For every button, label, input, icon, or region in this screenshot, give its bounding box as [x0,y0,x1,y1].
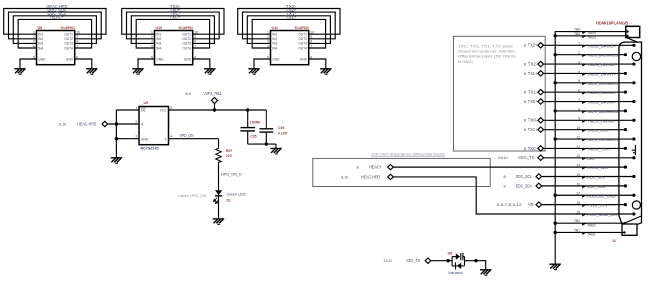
wire loop net TXC- (U10) [131,16,214,44]
svg-text:DDC_SCL: DDC_SCL [587,176,605,180]
svg-text:1: 1 [151,31,153,35]
connector J2 mounting hole top [632,52,640,60]
svg-text:VCC: VCC [160,109,167,113]
connector J2 pin 13 CEC [632,156,635,159]
note text TXC TX0 TX1 TX2 routing [458,44,516,64]
svg-text:R97: R97 [226,149,232,153]
svg-text:15: 15 [576,173,580,177]
connector J2 pin 8 TMDS_DA0SHIELD [555,110,625,112]
connector J2 pin 19 P5V0_HDMI_DET [632,212,635,215]
pin 5 GND left (U11) wire [254,59,271,69]
wire TX2+ to connector [543,44,634,46]
svg-text:14: 14 [576,164,580,168]
wire TXC+ to connector [543,129,625,131]
node junction rail at U9 inputs [115,110,117,158]
svg-text:5: 5 [578,79,580,83]
wire loop net TX2+ (U11) [243,12,336,39]
connector J2 mounting hole bottom [632,201,640,209]
wire loop net HEAC-HPD (U8) [4,9,106,35]
svg-text:HEAC+: HEAC+ [369,165,382,170]
connector J2 pin 9 TMDS_DATA0- [632,119,635,122]
connector J2 pin TB1 wire [555,231,624,233]
wire loop net TX0+ (U10) [127,12,220,39]
svg-text:3: 3 [151,40,153,44]
svg-text:CEC_TX: CEC_TX [518,155,534,160]
svg-text:OUT2: OUT2 [182,37,191,41]
svg-text:2: 2 [33,35,35,39]
svg-text:12: 12 [576,145,580,149]
svg-text:TMDS_DATA1+: TMDS_DATA1+ [587,72,616,76]
wire TX1+ to connector [543,72,625,74]
wire loop net TX2- (U11) [238,9,340,35]
svg-text:TX1+: TX1+ [528,71,538,76]
IC U11 RCLAMP0524 body [271,31,309,65]
svg-text:Label: HPD_ON: Label: HPD_ON [178,194,206,198]
connector J2 pin 7 TMDS_DATA0+ [632,100,635,103]
note box TX routing [454,36,546,151]
svg-text:4,6,10: 4,6,10 [384,258,393,263]
connector J2 pin 12 TMDS_CLK- [624,147,627,150]
pin 6 GND right (U10) wire [193,59,210,69]
svg-text:OUT4: OUT4 [182,46,191,50]
svg-text:8,10: 8,10 [341,174,349,179]
svg-text:8,10: 8,10 [59,121,67,126]
connector J2 pin 16 DDC_SDA [624,184,627,187]
wire loop net TX1- (U11) [247,16,330,44]
svg-text:2: 2 [151,35,153,39]
svg-text:TX2+: TX2+ [528,43,538,48]
connector J2 pin 11 TMDS_CLKSHIELD [555,138,634,140]
svg-text:3,5,7,8,9,12: 3,5,7,8,9,12 [497,202,522,207]
ground (right of U8) [86,69,97,74]
wire loop net TX1+ (U11) [252,19,325,48]
svg-text:U11: U11 [272,26,278,30]
svg-text:TMDS_DATA0-: TMDS_DATA0- [587,119,616,123]
ground (right of U10) [204,69,215,74]
pin 6 GND right (U11) wire [309,59,326,69]
svg-text:TMDS_DATA0+: TMDS_DATA0+ [587,101,616,105]
svg-text:10: 10 [310,31,314,35]
svg-text:8: 8 [524,118,526,123]
ground (capacitors) [270,149,281,154]
wire loop net DDC_SCL (U8) [13,16,96,44]
svg-text:17: 17 [576,192,580,196]
ground (left of U10) [132,69,143,74]
pin 5 GND left (U8) wire [20,59,37,69]
svg-text:16: 16 [576,182,580,186]
svg-text:8: 8 [524,146,526,151]
svg-text:TMDS_DA2SHIELD: TMDS_DA2SHIELD [587,54,618,58]
svg-text:TX0-: TX0- [528,118,538,123]
svg-text:RCLAMP0524: RCLAMP0524 [179,26,193,30]
svg-text:8: 8 [76,40,78,44]
svg-text:9: 9 [310,35,312,39]
wire loop net TXC+ (U10) [136,19,209,48]
svg-text:9: 9 [194,35,196,39]
svg-text:HEAC-HPD: HEAC-HPD [361,174,380,179]
svg-text:1: 1 [267,31,269,35]
wire shield ground rail [555,32,626,264]
svg-text:CEC_TX: CEC_TX [406,258,420,263]
svg-text:4,6,10: 4,6,10 [498,155,509,160]
svg-text:13: 13 [576,154,580,158]
svg-text:IN1: IN1 [38,33,43,37]
svg-text:TB3: TB3 [574,32,580,36]
wire HEAC+ to HDMI pin 14 [393,166,625,168]
svg-text:4: 4 [170,135,172,139]
svg-text:8: 8 [194,40,196,44]
svg-text:1: 1 [135,106,137,110]
connector J2 body outline [619,42,642,235]
svg-text:4: 4 [33,44,35,48]
svg-text:5: 5 [267,55,269,59]
ground (left of U11) [248,69,259,74]
wire loop net TX0- (U10) [122,9,224,35]
wire U9 pin 3 [116,138,139,140]
svg-text:TXC-: TXC- [528,146,538,151]
svg-text:TAB4: TAB4 [587,31,596,35]
svg-text:5: 5 [170,106,172,110]
svg-text:10: 10 [76,31,80,35]
svg-text:7: 7 [76,44,78,48]
wire loop net DDC_SDA (U8) [9,12,102,39]
svg-text:D1: D1 [227,198,232,202]
connector J2 pin 5 TMDS_DA1SHIELD [555,82,634,84]
wire HEAC-HPD to HDMI pin 19 [393,177,634,214]
connector J2 pin TB3 wire [555,35,626,37]
svg-text:Varistor: Varistor [448,271,464,275]
svg-text:19: 19 [576,210,580,214]
svg-text:GND: GND [66,57,74,61]
svg-text:8: 8 [524,43,526,48]
resistor R97 220 [216,147,222,164]
svg-text:0.1UF: 0.1UF [278,132,288,136]
svg-text:100NF: 100NF [250,121,261,125]
svg-text:OUT1: OUT1 [182,33,191,37]
svg-text:TMDS_CLKSHIELD: TMDS_CLKSHIELD [587,138,618,142]
IC U8 RCLAMP0524 body [37,31,75,65]
svg-text:TXC+: TXC+ [528,127,538,132]
svg-text:HPD_ON: HPD_ON [180,133,194,138]
svg-text:GND: GND [272,57,280,61]
svg-text:6: 6 [76,55,78,59]
svg-text:RCLAMP0524: RCLAMP0524 [295,26,309,30]
svg-text:TAB2: TAB2 [587,223,596,227]
svg-text:to GND): to GND) [458,59,474,64]
svg-text:GND: GND [156,57,164,61]
svg-text:8,9: 8,9 [186,91,192,96]
connector J2 pin 17 DDC/CEC_GND [555,194,634,196]
svg-text:3: 3 [578,60,580,64]
svg-text:DDC_SDA: DDC_SDA [516,183,532,188]
svg-text:IN3: IN3 [156,42,161,46]
ground (left of U8) [14,69,25,74]
ground (below LED D1) [213,219,224,224]
svg-text:OUT3: OUT3 [298,42,307,46]
svg-text:TMDS_DATA1-: TMDS_DATA1- [587,91,616,95]
svg-text:C36: C36 [278,126,284,130]
svg-text:100 Ohm impedance differential: 100 Ohm impedance differential tracks [371,151,445,156]
svg-text:IN4: IN4 [156,46,161,50]
svg-text:TX1+: TX1+ [286,15,297,20]
svg-text:TX2-: TX2- [528,61,538,66]
svg-text:GND: GND [38,57,46,61]
svg-text:C35: C35 [250,135,256,139]
svg-text:3: 3 [135,135,137,139]
svg-text:7: 7 [578,98,580,102]
svg-text:8: 8 [524,99,526,104]
svg-text:2: 2 [578,51,580,55]
svg-text:Green LED: Green LED [227,193,246,197]
svg-text:4: 4 [151,44,153,48]
connector J2 pin 1 TMDS_DATA2+ [632,44,635,47]
svg-text:TAB3: TAB3 [587,35,596,39]
svg-text:8: 8 [524,61,526,66]
power symbol V3P3_7911 [214,103,216,110]
svg-text:OE: OE [141,109,146,113]
wire TX0- to connector [543,119,634,121]
wire HPD_ON_D net [218,164,220,191]
svg-text:TMDS_DATA2-: TMDS_DATA2- [587,63,616,67]
svg-text:V5: V5 [528,202,534,207]
wire TX2- to connector [543,63,634,65]
connector J2 shell flap line [626,38,638,43]
connector J2 top mounting tab [626,26,640,37]
svg-text:IN4: IN4 [272,46,277,50]
wire VCC net [169,109,267,111]
capacitor C36 0.1UF [265,110,267,128]
svg-text:U8: U8 [38,26,43,30]
svg-text:OUT1: OUT1 [298,33,307,37]
IC U9 body [139,107,169,145]
svg-text:P5V0_CTV: P5V0_CTV [587,204,608,208]
svg-text:TMDS_DA0SHIELD: TMDS_DA0SHIELD [587,110,618,114]
svg-text:4: 4 [578,70,580,74]
svg-text:TMDS_DA1SHIELD: TMDS_DA1SHIELD [587,82,618,86]
wire CEC_TX to varistor D8 [431,260,452,262]
wire varistor to ground [465,261,486,270]
capacitor C35 100NF [247,110,249,127]
svg-text:DDC/CEC_GND: DDC/CEC_GND [587,194,616,198]
svg-text:3: 3 [33,40,35,44]
svg-text:8: 8 [578,107,580,111]
svg-text:5: 5 [33,55,35,59]
svg-text:6: 6 [578,89,580,93]
connector J2 pin 2 TMDS_DA2SHIELD [555,54,625,56]
connector J2 pin TB2 wire [555,222,624,224]
svg-text:4: 4 [267,44,269,48]
connector J2 pin 15 DDC_SCL [632,175,635,178]
svg-text:TX0+: TX0+ [528,99,538,104]
svg-text:8: 8 [504,183,506,188]
wire LED cathode to ground [218,196,220,219]
wire TX0+ to connector [543,101,634,103]
connector J2 pin 4 TMDS_DATA1+ [624,72,627,75]
svg-text:RSVD_N/C: RSVD_N/C [587,166,608,170]
svg-text:18: 18 [576,201,580,205]
svg-text:HEAC+: HEAC+ [50,15,64,20]
svg-text:8: 8 [524,71,526,76]
svg-text:TXC+: TXC+ [170,15,181,20]
svg-text:HPD_ON_D: HPD_ON_D [221,172,242,177]
wire TX1- to connector [543,91,625,93]
svg-text:8: 8 [310,40,312,44]
svg-text:9: 9 [76,35,78,39]
svg-text:IN1: IN1 [272,33,277,37]
svg-text:8: 8 [357,165,359,170]
wire HEAC-HPD to U9 pin A [108,123,140,125]
pin 6 GND right (U8) wire [75,59,92,69]
svg-text:7: 7 [194,44,196,48]
svg-text:IN4: IN4 [38,46,43,50]
pin 5 GND left (U10) wire [138,59,155,69]
svg-text:V3P3_7911: V3P3_7911 [204,91,223,96]
connector J2 pin 10 TMDS_CLK+ [624,128,627,131]
svg-text:IN2: IN2 [38,37,43,41]
ground (varistor D8) [480,270,491,275]
wire U9 pin 1 [116,109,139,111]
svg-text:TB2: TB2 [574,219,580,223]
svg-text:IN3: IN3 [272,42,277,46]
svg-text:7: 7 [310,44,312,48]
svg-text:IN2: IN2 [156,37,161,41]
connector J2 pin 6 TMDS_DATA1- [624,91,627,94]
svg-text:IN3: IN3 [38,42,43,46]
varistor D8 body [452,257,464,266]
ground (right of U11) [320,69,331,74]
wire capacitor ground rail [248,143,276,145]
ground (connector shield) [550,264,561,269]
LED D1 Green [215,190,222,195]
svg-text:TMDS_CLK-: TMDS_CLK- [587,147,611,151]
connector J2 polarity mark [632,145,636,155]
svg-text:3: 3 [267,40,269,44]
svg-text:10: 10 [194,31,198,35]
svg-text:11: 11 [577,135,581,139]
svg-text:2: 2 [135,120,137,124]
IC U10 RCLAMP0524 body [155,31,193,65]
note box around HEAC nets [313,158,490,186]
svg-text:OUT2: OUT2 [64,37,73,41]
connector J2 pin 14 RSVD_N/C [624,166,627,169]
svg-text:8: 8 [524,127,526,132]
svg-text:10: 10 [576,126,580,130]
wire HPD_ON net [169,138,219,140]
wire loop net HEAC+ (U8) [18,19,91,48]
svg-text:OUT1: OUT1 [64,33,73,37]
svg-text:D8: D8 [448,252,453,256]
svg-text:U9: U9 [144,101,149,105]
svg-text:TX1-: TX1- [528,90,538,95]
svg-text:TAB1: TAB1 [587,233,596,237]
svg-text:OUT2: OUT2 [298,37,307,41]
svg-text:IN1: IN1 [156,33,161,37]
svg-text:OUT3: OUT3 [182,42,191,46]
svg-text:GND: GND [141,137,149,141]
svg-text:HDMI19PLANGB: HDMI19PLANGB [596,20,628,25]
connector J2 pin 3 TMDS_DATA2- [632,62,635,65]
svg-text:OUT4: OUT4 [298,46,307,50]
svg-text:HEAC-HPD: HEAC-HPD [77,121,96,126]
svg-text:220: 220 [226,154,232,158]
svg-text:TMDS_DATA2+: TMDS_DATA2+ [587,44,616,48]
svg-text:1: 1 [578,42,580,46]
svg-text:2: 2 [267,35,269,39]
svg-text:J2: J2 [612,239,616,243]
svg-text:8: 8 [524,90,526,95]
svg-text:DDC_SDA: DDC_SDA [587,185,606,189]
wire TXC- to connector [543,147,625,149]
connector J2 pin 18 P5V0_CTV [624,203,627,206]
svg-text:U10: U10 [156,26,163,30]
svg-text:GND: GND [300,57,308,61]
svg-text:DDC_SCL: DDC_SCL [516,174,533,179]
svg-text:9: 9 [578,117,580,121]
svg-text:1: 1 [33,31,35,35]
svg-text:TB1: TB1 [574,228,580,232]
svg-text:CEC: CEC [587,157,595,161]
svg-text:6: 6 [194,55,196,59]
svg-text:OUT4: OUT4 [64,46,73,50]
svg-text:P5V0_HDMI_DET: P5V0_HDMI_DET [587,213,619,217]
svg-text:6: 6 [310,55,312,59]
svg-text:8: 8 [504,174,506,179]
svg-text:GND: GND [184,57,192,61]
svg-text:RCLAMP0524: RCLAMP0524 [61,26,75,30]
svg-text:NC7SZ125: NC7SZ125 [141,146,159,150]
svg-text:5: 5 [151,55,153,59]
svg-text:TMDS_CLK+: TMDS_CLK+ [587,129,611,133]
svg-text:IN2: IN2 [272,37,277,41]
svg-text:OUT3: OUT3 [64,42,73,46]
ground (below U9 input rail) [111,158,122,163]
